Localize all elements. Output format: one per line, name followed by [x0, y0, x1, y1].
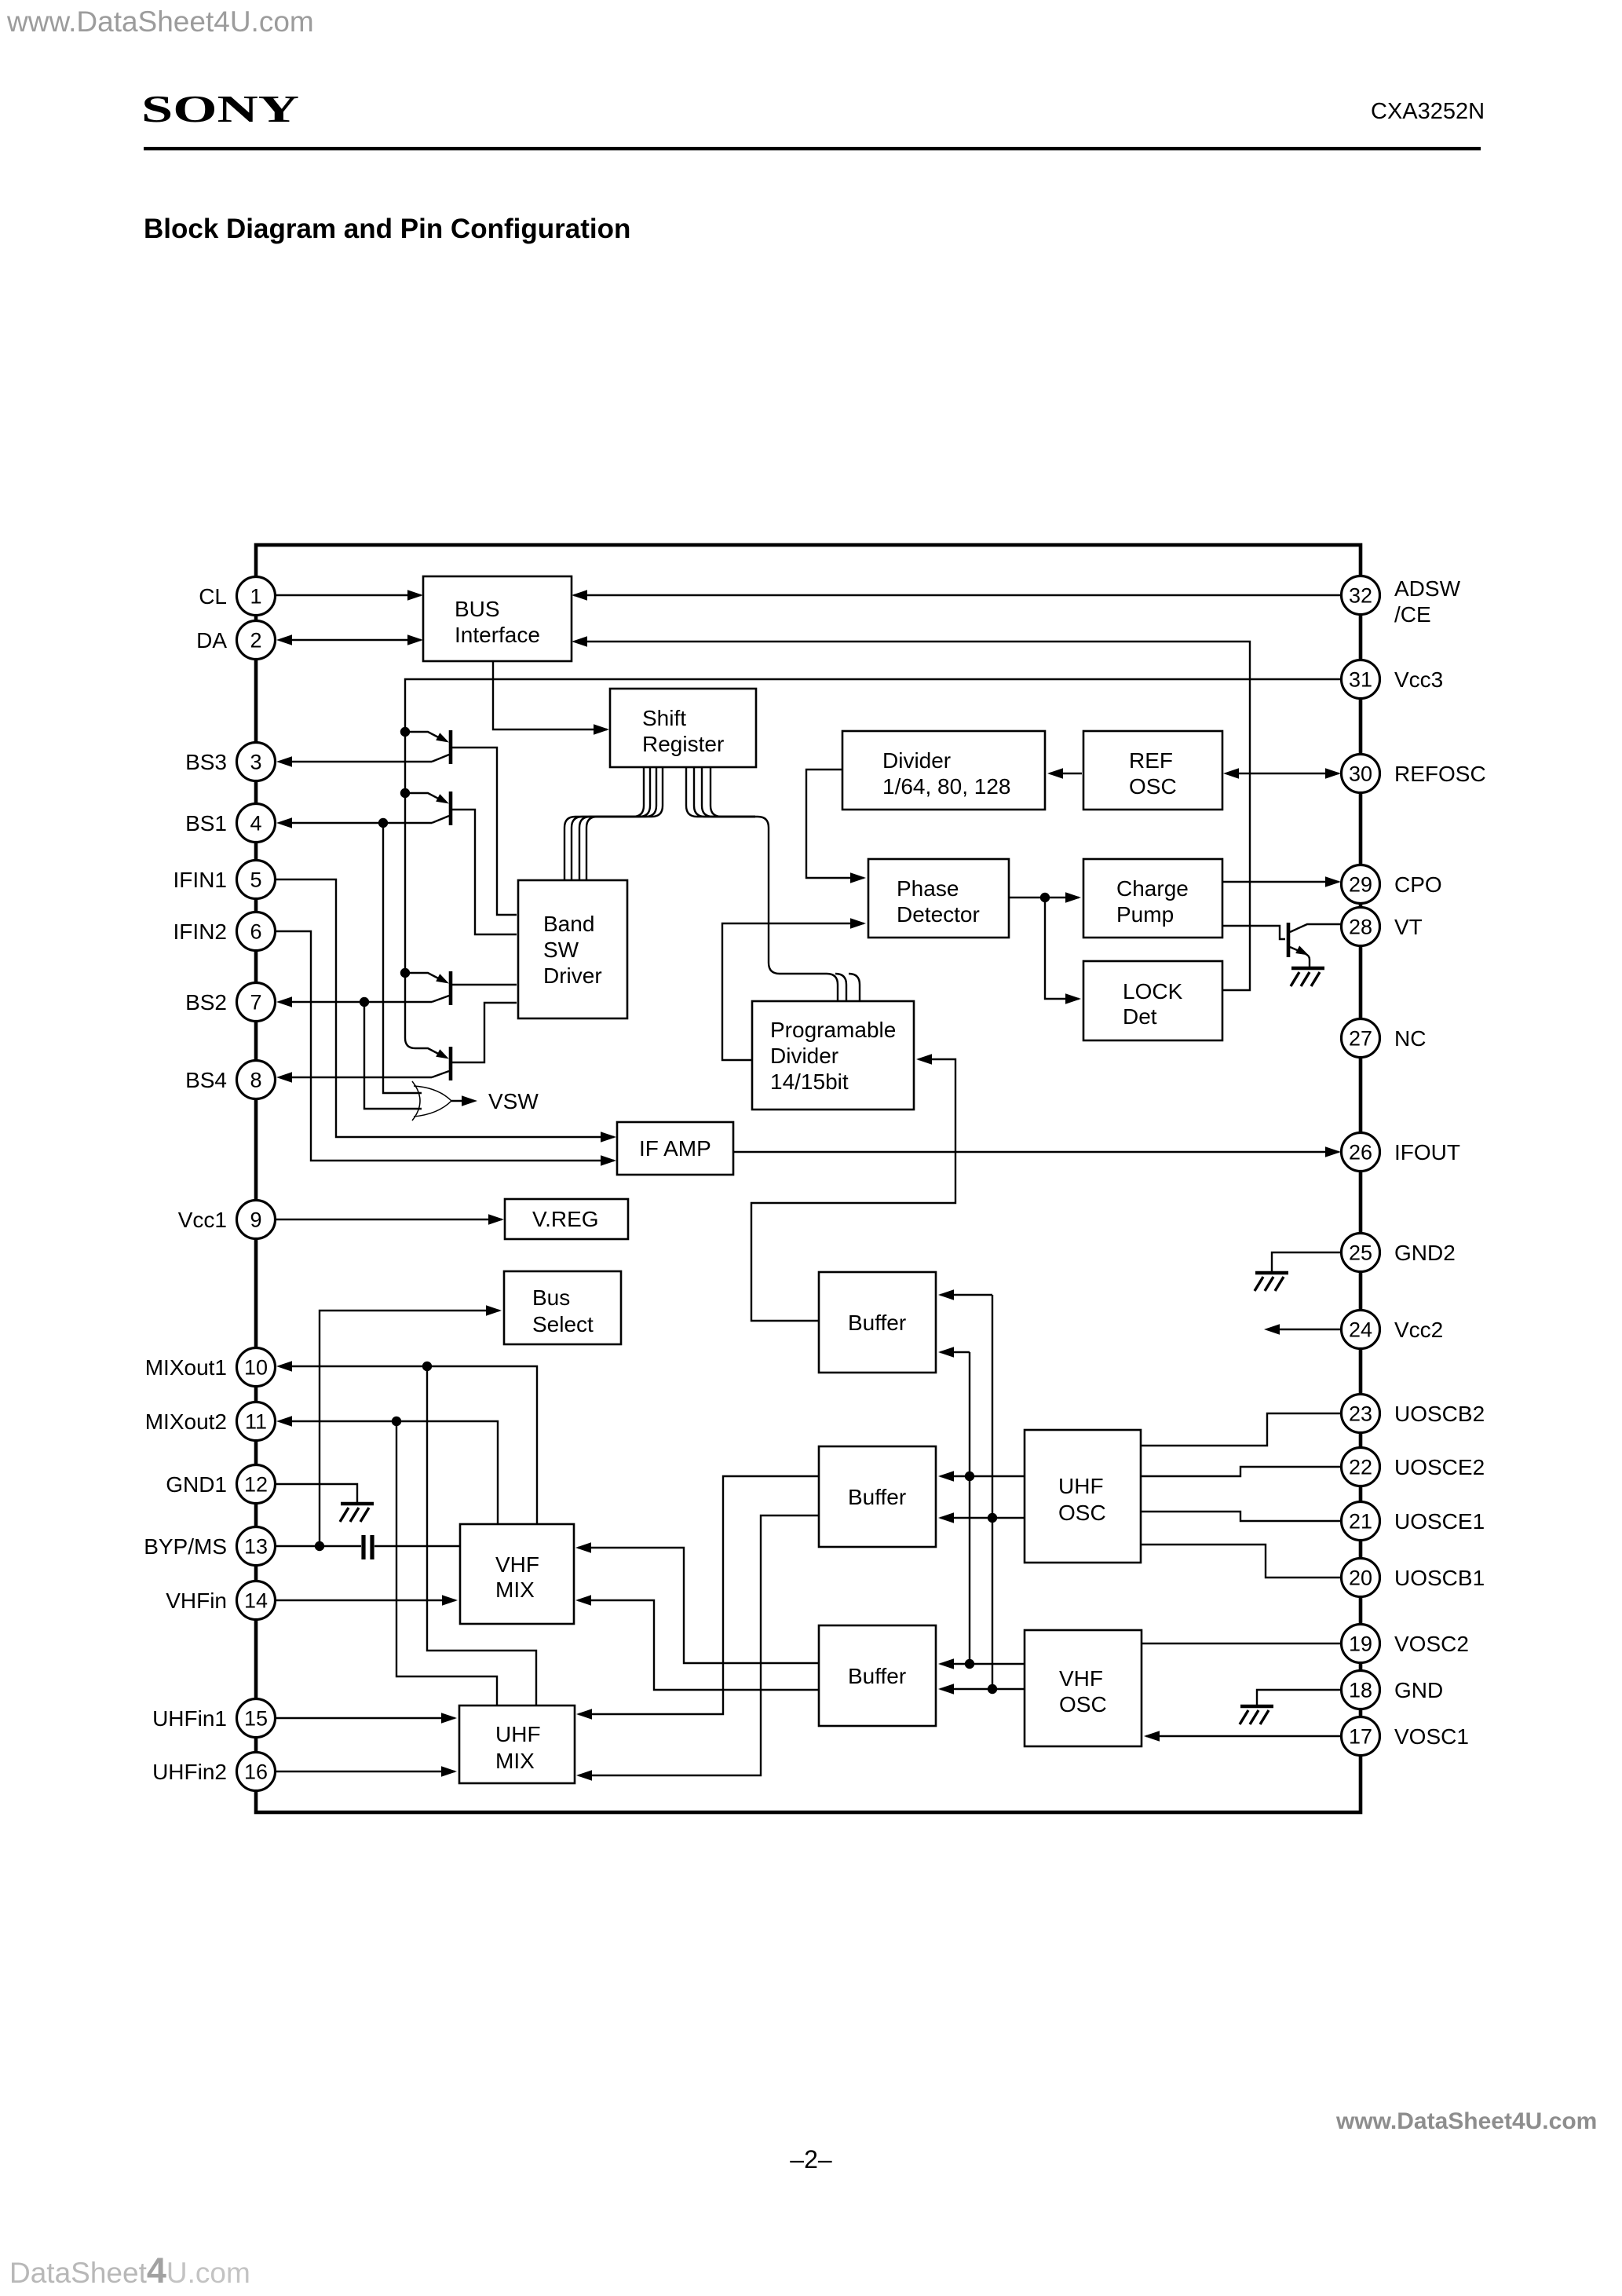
wire Divider to Phase Detector — [806, 770, 864, 878]
pin 11 MIXout2 — [145, 1402, 276, 1441]
wire pin16 UHFin2 to UHF MIX — [275, 1771, 455, 1772]
pin 29 CPO — [1342, 865, 1442, 904]
wire UHF OSC to pin23 UOSCB2 — [1141, 1413, 1342, 1446]
wire LOCK Det output to BUS Interface — [575, 642, 1250, 990]
svg-text:Interface: Interface — [455, 623, 540, 647]
pin 8 BS4 — [185, 1061, 275, 1099]
wire pin2 DA to BUS Interface (bidirectional) — [279, 639, 421, 641]
wire UHF OSC to pin21 UOSCE1 — [1141, 1512, 1342, 1521]
svg-text:31: 31 — [1349, 668, 1372, 692]
pin 23 UOSCB2 — [1342, 1395, 1485, 1433]
pin 12 GND1 — [166, 1465, 275, 1504]
block Bus Select — [504, 1271, 621, 1344]
wire pin24 Vcc2 supply arrow — [1268, 1329, 1340, 1330]
node junction dot Q1 emitter — [400, 727, 410, 737]
svg-text:UOSCB1: UOSCB1 — [1394, 1566, 1485, 1590]
svg-text:5: 5 — [250, 868, 261, 892]
wire Buffer2 to UHF MIX input 2 — [579, 1515, 819, 1775]
svg-text:19: 19 — [1349, 1632, 1372, 1656]
wire Buffer2 to UHF MIX input 1 — [579, 1476, 819, 1714]
block Buffer U1 — [819, 1272, 936, 1373]
svg-text:Register: Register — [642, 732, 724, 756]
block Shift Register — [610, 689, 756, 767]
transistor Q2 (BS1 driver) — [409, 793, 444, 802]
pin 7 BS2 — [185, 983, 275, 1022]
svg-text:11: 11 — [245, 1410, 267, 1434]
capacitor C1 on BYP/MS — [361, 1535, 365, 1559]
wire UHF OSC to pin22 UOSCE2 — [1141, 1467, 1342, 1476]
wire pin30 REFOSC to REF OSC (bidirectional) — [1227, 773, 1339, 774]
svg-text:13: 13 — [244, 1535, 268, 1559]
svg-text:BS2: BS2 — [185, 990, 227, 1015]
wire branch to LOCK Det — [1045, 898, 1079, 999]
wire Q4 to pin8 BS4 — [279, 1077, 432, 1078]
svg-text:8: 8 — [250, 1069, 261, 1092]
svg-text:VOSC1: VOSC1 — [1394, 1724, 1469, 1749]
svg-text:SONY: SONY — [141, 87, 299, 130]
svg-text:23: 23 — [1349, 1402, 1372, 1426]
pin 14 VHFin — [166, 1581, 275, 1620]
svg-text:Vcc2: Vcc2 — [1394, 1318, 1443, 1342]
node junction dot MIXout1 line — [422, 1362, 432, 1371]
svg-text:20: 20 — [1349, 1567, 1372, 1590]
block Charge Pump — [1083, 859, 1222, 938]
svg-text:OSC: OSC — [1059, 1692, 1107, 1717]
wire UHF OSC out2 to Buffer2 — [941, 1517, 1025, 1519]
block Band SW Driver — [518, 880, 627, 1018]
block Buffer U3 — [819, 1625, 936, 1726]
wire MIXout1 branch to UHF MIX — [427, 1366, 536, 1706]
svg-text:www.DataSheet4U.com: www.DataSheet4U.com — [6, 5, 314, 38]
node junction dot pin13 line — [315, 1541, 324, 1551]
svg-text:VHF: VHF — [495, 1552, 539, 1577]
pin 26 IFOUT — [1342, 1133, 1461, 1172]
pin 28 VT — [1342, 908, 1423, 946]
wire Q4 collector to Band SW Driver — [452, 1003, 517, 1062]
wire to Buffer1 input 2 — [941, 1351, 970, 1353]
transistor Q1 (BS3 driver) — [409, 732, 444, 740]
node junction dot MIXout2 line — [392, 1417, 401, 1426]
wire OR gate input 1 — [383, 823, 422, 1093]
svg-text:IF AMP: IF AMP — [639, 1136, 711, 1161]
svg-text:LOCK: LOCK — [1123, 979, 1183, 1004]
pin 19 VOSC2 — [1342, 1625, 1469, 1663]
ground GND1 — [340, 1504, 374, 1522]
pin 31 Vcc3 — [1342, 660, 1444, 699]
svg-text:1: 1 — [250, 585, 261, 609]
block IF AMP — [617, 1122, 733, 1175]
node junction dot UHF osc out2 — [988, 1513, 997, 1523]
svg-text:17: 17 — [1349, 1725, 1372, 1749]
wire vertical osc bus A — [992, 1295, 993, 1689]
wire pin6 IFIN2 to IF AMP — [275, 931, 614, 1161]
block Buffer U2 — [819, 1446, 936, 1547]
svg-text:V.REG: V.REG — [532, 1207, 599, 1231]
transistor Q3 (BS2 driver) — [409, 973, 444, 982]
svg-text:Buffer: Buffer — [848, 1485, 906, 1509]
svg-text:27: 27 — [1349, 1027, 1372, 1051]
svg-text:UHFin2: UHFin2 — [152, 1760, 227, 1784]
svg-text:MIXout1: MIXout1 — [145, 1355, 227, 1380]
svg-text:9: 9 — [250, 1208, 261, 1232]
svg-text:–2–: –2– — [790, 2145, 832, 2174]
wire pin32 ADSW/CE to BUS Interface — [574, 594, 1342, 596]
svg-text:3: 3 — [250, 751, 261, 774]
svg-text:4: 4 — [250, 812, 261, 835]
node junction dot pin4 line — [378, 818, 388, 828]
svg-text:OSC: OSC — [1129, 774, 1177, 799]
svg-text:IFIN2: IFIN2 — [174, 919, 227, 944]
svg-text:7: 7 — [250, 991, 261, 1015]
block Phase Detector — [868, 859, 1009, 938]
svg-text:UHF: UHF — [495, 1722, 541, 1746]
svg-text:ADSW: ADSW — [1394, 576, 1461, 601]
svg-text:DataSheet4U.com: DataSheet4U.com — [9, 2250, 250, 2291]
wire VHF MIX to pin11 MIXout2 — [279, 1421, 498, 1524]
svg-text:VT: VT — [1394, 915, 1423, 939]
svg-text:UOSCB2: UOSCB2 — [1394, 1402, 1485, 1426]
pin 2 DA — [196, 621, 275, 660]
svg-text:32: 32 — [1349, 584, 1372, 608]
svg-text:Shift: Shift — [642, 706, 686, 730]
wire VHF OSC out2 to Buffer3 — [941, 1688, 1025, 1690]
pin 13 BYP/MS — [144, 1527, 275, 1566]
svg-text:Buffer: Buffer — [848, 1664, 906, 1688]
pin 30 REFOSC — [1342, 755, 1486, 793]
svg-text:REF: REF — [1129, 748, 1173, 773]
wire pin5 IFIN1 to IF AMP — [275, 879, 614, 1137]
ground at Q5 emitter — [1291, 968, 1324, 986]
wire Q2 to pin4 BS1 — [279, 822, 432, 824]
svg-text:14/15bit: 14/15bit — [770, 1069, 849, 1094]
svg-text:Divider: Divider — [770, 1044, 838, 1068]
node junction dot pin7 line — [360, 997, 369, 1007]
pin 9 Vcc1 — [178, 1201, 276, 1239]
svg-text:Pump: Pump — [1116, 902, 1174, 927]
svg-text:24: 24 — [1349, 1318, 1372, 1342]
node junction dot Q2 emitter — [400, 788, 410, 798]
svg-text:Select: Select — [532, 1312, 594, 1336]
wire Q3 to pin7 BS2 — [279, 1001, 432, 1003]
wire Vcc3 pin31 supply rail — [405, 679, 1342, 1048]
block LOCK Det — [1083, 961, 1222, 1040]
wire to Bus Select — [320, 1311, 499, 1546]
pin 25 GND2 — [1342, 1234, 1456, 1272]
node junction dot Q3 emitter — [400, 968, 410, 978]
svg-text:VSW: VSW — [488, 1089, 539, 1113]
pin 10 MIXout1 — [145, 1348, 276, 1387]
wire OR gate input 2 — [364, 1002, 422, 1109]
svg-text:VHFin: VHFin — [166, 1589, 227, 1613]
svg-text:GND: GND — [1394, 1678, 1443, 1702]
pin 3 BS3 — [185, 743, 275, 781]
block REF OSC — [1083, 731, 1222, 810]
wire Programable Divider to Phase Detector — [722, 923, 864, 1060]
wire Q3 collector to Band SW Driver — [452, 984, 517, 985]
wire pin15 UHFin1 to UHF MIX — [275, 1717, 455, 1719]
wire Buffer3 to VHF MIX input 1 — [578, 1548, 819, 1663]
svg-text:CPO: CPO — [1394, 872, 1442, 897]
svg-text:GND1: GND1 — [166, 1472, 227, 1497]
node junction dot phase output — [1040, 893, 1050, 902]
block VHF OSC — [1025, 1630, 1142, 1746]
svg-text:BS1: BS1 — [185, 811, 227, 835]
wire pin13 BYP/MS line — [275, 1545, 460, 1547]
svg-text:22: 22 — [1349, 1456, 1372, 1479]
wire pin17 VOSC1 to VHF OSC — [1146, 1735, 1342, 1737]
svg-text:26: 26 — [1349, 1141, 1372, 1164]
svg-text:12: 12 — [244, 1473, 268, 1497]
svg-text:BS4: BS4 — [185, 1068, 227, 1092]
svg-text:VOSC2: VOSC2 — [1394, 1632, 1469, 1656]
svg-text:2: 2 — [250, 629, 261, 653]
wire REF OSC to Divider — [1050, 773, 1082, 774]
wire pin9 Vcc1 to V.REG — [275, 1219, 502, 1220]
pin 32 ADSW/CE — [1342, 576, 1461, 627]
svg-text:Divider: Divider — [882, 748, 951, 773]
svg-text:29: 29 — [1349, 873, 1372, 897]
svg-text:Buffer: Buffer — [848, 1311, 906, 1335]
svg-text:UOSCE1: UOSCE1 — [1394, 1509, 1485, 1534]
pin 16 UHFin2 — [152, 1753, 275, 1791]
block V.REG — [505, 1199, 628, 1239]
svg-text:REFOSC: REFOSC — [1394, 762, 1486, 786]
block UHF OSC — [1025, 1430, 1141, 1563]
block Divider 1/64 80 128 — [842, 731, 1045, 810]
wire pin25 GND2 to ground — [1272, 1252, 1342, 1271]
pin 18 GND — [1342, 1671, 1444, 1709]
svg-text:6: 6 — [250, 920, 261, 944]
svg-text:CL: CL — [199, 584, 227, 609]
svg-text:UHFin1: UHFin1 — [152, 1706, 227, 1731]
svg-text:/CE: /CE — [1394, 602, 1431, 627]
wire Q1 to pin3 BS3 — [279, 761, 432, 762]
node junction dot UHF osc out1 — [965, 1472, 974, 1481]
wire VSW output — [451, 1100, 474, 1102]
pin 6 IFIN2 — [174, 912, 276, 951]
svg-text:Vcc3: Vcc3 — [1394, 667, 1443, 692]
wire pin12 GND1 to ground — [275, 1484, 357, 1502]
svg-text:NC: NC — [1394, 1026, 1426, 1051]
svg-text:BS3: BS3 — [185, 750, 227, 774]
svg-text:30: 30 — [1349, 762, 1372, 786]
svg-text:Programable: Programable — [770, 1018, 896, 1042]
svg-text:SW: SW — [543, 938, 579, 962]
node junction dot VHF osc out2 — [988, 1684, 997, 1694]
block UHF MIX — [459, 1706, 575, 1783]
ground GND2 — [1255, 1273, 1288, 1291]
svg-text:www.DataSheet4U.com: www.DataSheet4U.com — [1335, 2108, 1597, 2134]
pin 4 BS1 — [185, 804, 275, 843]
wire BUS Interface to Shift Register — [493, 661, 607, 729]
wire bus Shift Register to Band SW Driver — [564, 767, 644, 880]
header rule — [144, 147, 1481, 150]
block BUS Interface — [423, 576, 572, 661]
wire vertical osc bus B — [969, 1352, 970, 1664]
svg-text:GND2: GND2 — [1394, 1241, 1456, 1265]
wire Q1 collector to Band SW Driver — [452, 748, 517, 915]
svg-text:15: 15 — [244, 1707, 268, 1731]
svg-text:OSC: OSC — [1058, 1501, 1106, 1525]
svg-text:MIXout2: MIXout2 — [145, 1409, 227, 1434]
pin 22 UOSCE2 — [1342, 1448, 1485, 1486]
pin 1 CL — [199, 577, 275, 616]
wire Charge Pump to Q5 base — [1222, 926, 1285, 939]
wire VHF MIX to pin10 MIXout1 — [279, 1366, 537, 1524]
pin 24 Vcc2 — [1342, 1311, 1444, 1349]
svg-text:VHF: VHF — [1059, 1666, 1103, 1691]
wire bus Shift Register to Programable Divider — [686, 767, 838, 1001]
svg-text:10: 10 — [244, 1356, 268, 1380]
wire Q2 collector to Band SW Driver — [452, 810, 517, 934]
wire VHF OSC out1 to Buffer3 — [941, 1663, 1025, 1665]
svg-text:16: 16 — [244, 1760, 268, 1784]
svg-text:DA: DA — [196, 628, 227, 653]
svg-text:BUS: BUS — [455, 597, 500, 621]
pin 21 UOSCE1 — [1342, 1502, 1485, 1541]
wire pin14 VHFin to VHF MIX — [275, 1600, 455, 1601]
node junction dot VHF osc out1 — [965, 1659, 974, 1669]
svg-text:CXA3252N: CXA3252N — [1371, 99, 1485, 124]
wire Charge Pump to pin29 CPO — [1222, 881, 1339, 883]
svg-text:MIX: MIX — [495, 1749, 535, 1773]
svg-text:28: 28 — [1349, 916, 1372, 939]
OR gate VSW — [412, 1081, 420, 1121]
block VHF MIX — [460, 1524, 574, 1624]
svg-text:Band: Band — [543, 912, 594, 936]
ground at pin18 — [1240, 1706, 1273, 1724]
svg-text:18: 18 — [1349, 1679, 1372, 1702]
wire Phase Detector to Charge Pump — [1009, 897, 1079, 898]
svg-text:BYP/MS: BYP/MS — [144, 1534, 227, 1559]
wire to Buffer1 input 1 — [941, 1294, 992, 1296]
svg-text:14: 14 — [244, 1589, 268, 1613]
svg-text:MIX: MIX — [495, 1578, 535, 1602]
transistor Q4 (BS4 driver) — [415, 1048, 444, 1057]
pin 5 IFIN1 — [174, 861, 276, 899]
wire Buffer3 to VHF MIX input 2 — [578, 1600, 819, 1690]
svg-text:UOSCE2: UOSCE2 — [1394, 1455, 1485, 1479]
svg-text:UHF: UHF — [1058, 1474, 1104, 1498]
pin 15 UHFin1 — [152, 1699, 275, 1738]
svg-text:Vcc1: Vcc1 — [178, 1208, 227, 1232]
wire pin18 GND to ground — [1257, 1690, 1342, 1705]
svg-text:Block Diagram and Pin Configur: Block Diagram and Pin Configuration — [144, 214, 630, 244]
svg-text:Driver: Driver — [543, 963, 602, 988]
wire UHF OSC out1 to Buffer2 — [941, 1475, 1025, 1477]
svg-text:IFOUT: IFOUT — [1394, 1140, 1460, 1164]
svg-text:Det: Det — [1123, 1004, 1157, 1029]
pin 17 VOSC1 — [1342, 1717, 1469, 1756]
svg-text:IFIN1: IFIN1 — [174, 868, 227, 892]
pin 20 UOSCB1 — [1342, 1559, 1485, 1597]
svg-text:Charge: Charge — [1116, 876, 1189, 901]
block Programable Divider 14/15bit — [752, 1001, 914, 1110]
svg-text:1/64, 80, 128: 1/64, 80, 128 — [882, 774, 1010, 799]
svg-text:Phase: Phase — [897, 876, 959, 901]
svg-text:25: 25 — [1349, 1241, 1372, 1265]
wire UHF OSC to pin20 UOSCB1 — [1141, 1545, 1342, 1578]
transistor Q5 (VT output) — [1287, 923, 1291, 957]
wire IF AMP output to pin26 IFOUT — [733, 1151, 1339, 1153]
wire MIXout2 branch to UHF MIX — [396, 1421, 497, 1706]
wire pin1 CL to BUS Interface — [275, 594, 421, 596]
wire VHF OSC to pin19 VOSC2 — [1142, 1643, 1342, 1644]
wire Buffer to Programable Divider — [751, 1059, 955, 1321]
IC boundary rectangle — [256, 545, 1361, 1812]
svg-text:Bus: Bus — [532, 1285, 570, 1310]
svg-text:Detector: Detector — [897, 902, 980, 927]
pin 27 NC — [1342, 1019, 1427, 1058]
svg-text:21: 21 — [1349, 1510, 1372, 1534]
